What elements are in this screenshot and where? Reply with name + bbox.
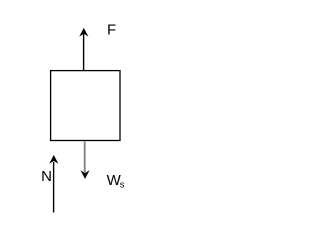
svg-text:s: s bbox=[120, 180, 125, 191]
svg-text:N: N bbox=[41, 168, 52, 185]
svg-text:F: F bbox=[107, 21, 116, 38]
